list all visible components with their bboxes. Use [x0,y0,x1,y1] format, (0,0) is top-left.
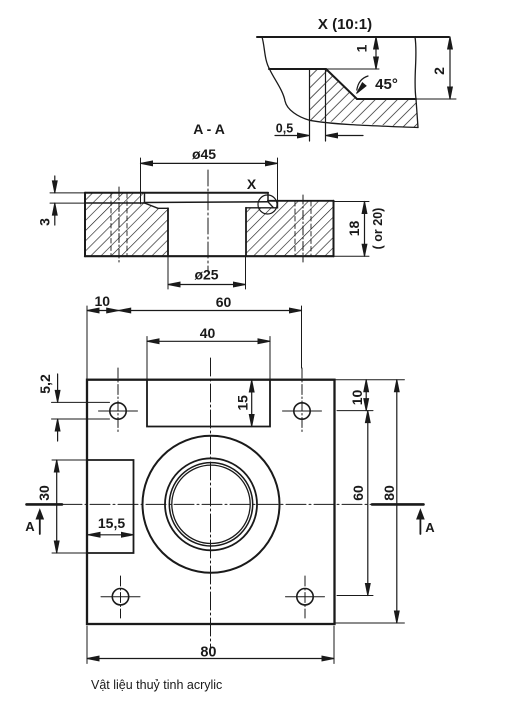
svg-text:30: 30 [36,485,52,501]
detail top line [257,36,449,38]
svg-text:80: 80 [381,485,397,501]
svg-text:X: X [247,176,257,192]
right ext lines [335,379,405,381]
groove left slant [145,203,169,208]
disc right edge step [267,193,269,202]
svg-text:1: 1 [354,44,370,52]
top surface right of recess [268,200,334,202]
A-A horizontal centerline [27,503,63,506]
right block edge [333,201,335,256]
left hatch region [85,193,168,257]
big circle [143,436,280,573]
svg-text:X (10:1): X (10:1) [318,16,372,33]
dim 30 [52,459,87,461]
dim 40 [146,337,148,380]
svg-text:2: 2 [431,67,447,75]
dim 1 [375,37,377,69]
plate outline [87,380,335,624]
bottom break edge [310,120,419,127]
svg-text:80: 80 [200,645,216,661]
svg-text:15: 15 [234,395,250,411]
left break edge of band [262,37,270,69]
bolt hole bottom-right [297,589,313,605]
hole vertical centerlines [118,368,305,618]
dim 60 top [301,306,303,368]
dim 10 top [86,306,88,380]
dim 80 right [396,380,398,623]
0,5 left extension / break vertical [309,69,311,141]
svg-text:60: 60 [350,485,366,501]
svg-text:( or 20): ( or 20) [371,208,385,250]
45 deg chamfer [326,69,357,99]
svg-text:60: 60 [216,294,232,310]
block bottom [85,255,334,257]
svg-text:Vật liệu thuỷ tinh acrylic: Vật liệu thuỷ tinh acrylic [91,678,222,692]
svg-text:A - A: A - A [193,121,225,137]
svg-text:ø45: ø45 [192,146,216,162]
dim phi25 [167,256,169,289]
svg-text:3: 3 [37,218,53,226]
section vertical centerline [207,170,209,272]
detail hatch region [310,69,419,128]
svg-text:18: 18 [346,221,362,237]
bolt hole top-right [294,403,310,419]
dim 10 right [365,380,367,411]
left block edge [84,193,86,257]
dim 18 (or 20) [334,201,370,203]
dim 2 [449,37,451,99]
hole left wall [167,208,169,256]
svg-text:5,2: 5,2 [37,374,53,394]
section arrow left with label A [39,512,41,534]
surface extension for dim 1 [326,68,379,70]
svg-text:A: A [425,520,435,535]
svg-text:45°: 45° [375,76,398,93]
svg-text:10: 10 [95,293,111,309]
0,5 right extension [325,70,327,141]
recess floor line [357,98,416,100]
svg-text:40: 40 [200,325,216,341]
dim 60 right [367,411,369,596]
right break edge [415,37,418,128]
bolt hole bottom-left [112,589,128,605]
dim phi45 [140,158,142,204]
left rectangle 15.5x30 [87,460,134,553]
svg-text:10: 10 [349,390,365,406]
dim 15 [251,380,253,427]
detail surface line [269,68,326,70]
floor extension for dim 2 [416,98,456,100]
svg-text:ø25: ø25 [194,267,218,283]
svg-text:0,5: 0,5 [276,122,293,136]
section arrow right with label A [419,512,421,534]
0,5 dimension [275,135,298,137]
hole right wall [245,208,247,256]
hidden hole lines left [111,194,311,256]
detail X indicator circle [258,195,277,214]
section outline: top surface left + disc top [85,192,268,194]
left break curve of plate fragment [270,69,310,120]
svg-text:15,5: 15,5 [98,515,125,531]
dim 5,2 [52,401,110,403]
dim 80 bottom [86,626,88,664]
bolt hole top-left [110,403,126,419]
plate surface under lip / disc bottom [85,202,144,204]
top rectangle 40x15 [147,380,270,427]
dim 15,5 [88,534,134,536]
dim 3 [50,192,85,194]
recess left wall / disc left edge [144,193,146,203]
svg-text:A: A [25,519,35,534]
ring circles [165,458,257,550]
right hatch region [246,201,334,256]
bolt hole centerlines in section [119,187,303,262]
groove right ledge [268,202,274,208]
main vertical centerline [210,358,212,648]
